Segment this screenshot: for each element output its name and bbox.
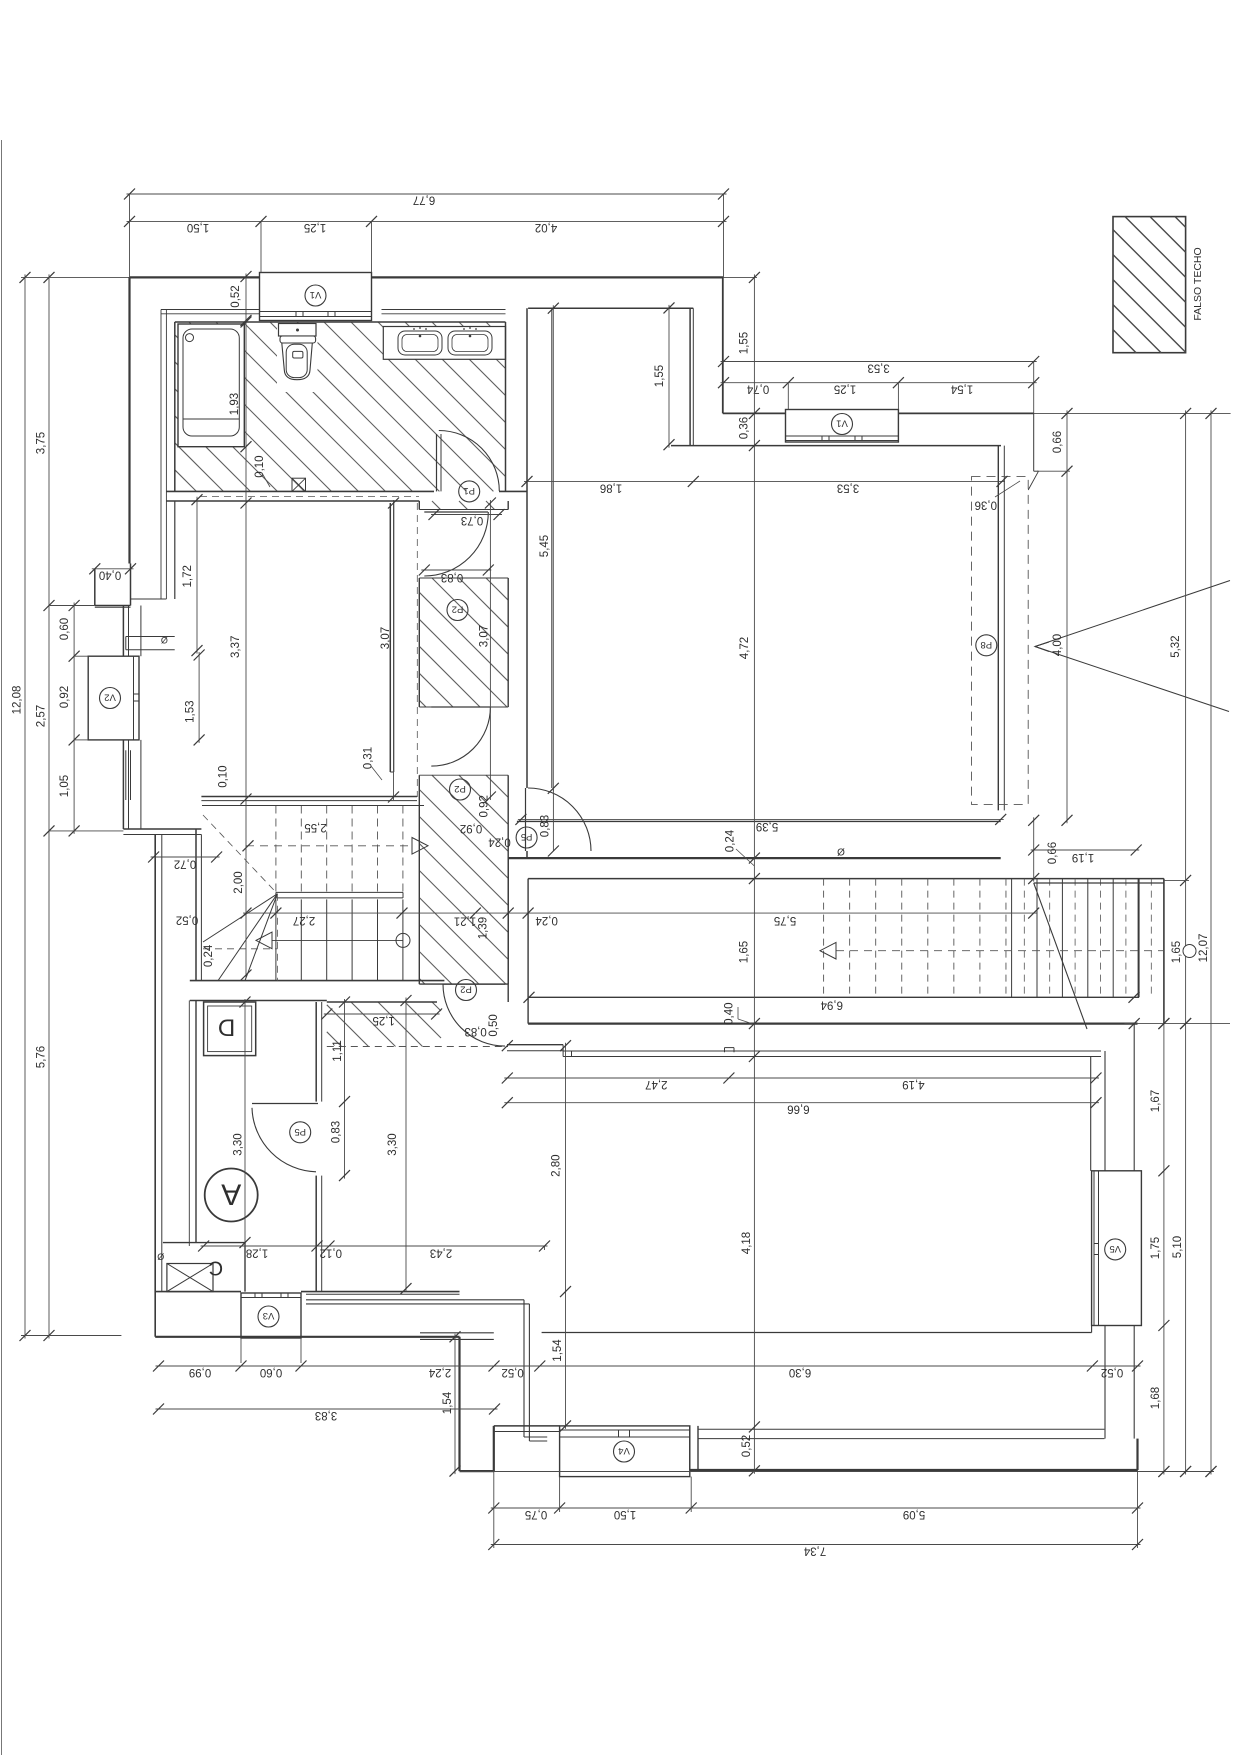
wall: stairwell west side [195,829,197,981]
svg-text:0,83: 0,83 [540,815,552,837]
svg-text:1,50: 1,50 [614,1508,636,1520]
svg-text:1,75: 1,75 [1150,1237,1162,1259]
bottom dim row y1366 [156,1365,1141,1367]
ext line to right edge [1034,412,1231,414]
diagonal break line [1034,883,1087,1029]
wall: NE room east double [997,446,999,811]
wall: bathroom south [166,490,434,492]
window label V1 [305,285,326,306]
stair mid handrail [276,891,403,893]
legend hatch [1113,217,1186,353]
svg-text:4,00: 4,00 [1052,634,1064,656]
svg-text:0,75: 0,75 [525,1508,547,1520]
page border left [1,140,3,1755]
svg-text:1,21: 1,21 [454,914,476,926]
svg-text:2,57: 2,57 [36,705,48,727]
room label A [205,1169,258,1222]
window V1 top [260,273,372,321]
svg-text:V5: V5 [1109,1243,1121,1254]
svg-text:V2: V2 [104,692,116,703]
svg-text:0,24: 0,24 [488,835,511,847]
svg-text:1,65: 1,65 [1171,941,1183,963]
window V2 [88,656,139,740]
left margin dims 12,08 / 3,75 2,57 5,76 / 0,60 0,92 1,05 [24,274,26,1338]
corridor treads east dashed [1023,879,1025,998]
svg-text:3,75: 3,75 [36,432,48,454]
svg-text:2,24: 2,24 [428,1366,451,1378]
dim row 1,28 0,12 2,43 [201,1245,548,1247]
stairs lower flight treads [275,899,277,980]
ext y880 right [1164,879,1189,881]
svg-text:P5: P5 [521,831,533,842]
bottom dim rows 0,75 1,50 5,09 / 7,34 [491,1507,1141,1509]
upper walking line dashed with arrow [246,845,412,847]
corridor dashed treads (west) [823,879,825,998]
wall: bedroom east [389,503,391,772]
svg-text:6,30: 6,30 [789,1366,811,1378]
winder dashed [276,894,278,981]
svg-text:P5: P5 [294,1126,306,1137]
ext lines top [129,194,131,277]
porch south thin lines [698,1428,1104,1430]
svg-text:0,66: 0,66 [1047,842,1059,864]
svg-text:P1: P1 [463,485,475,496]
door P2 lower (hall/stairs) [443,983,505,985]
left vertical dim line x246 (0,52 1,93 3,37 2,00) [245,319,247,978]
svg-text:V4: V4 [618,1445,630,1456]
svg-text:0,92: 0,92 [59,686,71,708]
stair wall hatched band seg2 [419,578,508,707]
svg-text:1,53: 1,53 [185,701,197,723]
wall: west outer lower [154,835,156,1337]
living south thin pair left [420,1332,494,1334]
living room NE corner down [1090,1057,1092,1171]
wall: NE corner vertical [722,277,724,413]
svg-text:6,66: 6,66 [787,1103,809,1115]
svg-text:6,94: 6,94 [820,998,843,1010]
svg-text:1,28: 1,28 [246,1246,268,1258]
window label V3 [258,1306,279,1327]
level marker circle [1183,945,1196,958]
porch SW heavy walls [458,1337,460,1471]
svg-text:3,53: 3,53 [837,481,859,493]
stair east edge [1163,879,1165,1024]
wall: hall/A divider [315,1002,317,1102]
door P5 big room (leaf+arc) [525,788,527,851]
bathroom hatched floor [175,322,506,491]
hatched band lower entry [327,1002,441,1047]
ext lines bottom [493,1471,495,1548]
svg-text:0,10: 0,10 [254,455,266,477]
stair wall hatched band seg1 [432,501,495,510]
long vertical dim line x754 (1,55 0,36 4,72 0,24 1,65 4,18 0,52) [753,274,755,1473]
svg-text:Ø: Ø [161,635,168,645]
wall: vestibule north inner face [528,307,693,309]
svg-text:1,11: 1,11 [332,1040,344,1062]
svg-text:5,76: 5,76 [36,1046,48,1068]
stairs upper flight treads (dashed) [275,806,277,893]
svg-text:4,02: 4,02 [535,221,557,233]
door label P2 mid [450,779,471,800]
dim 1,72 / 1,53 [196,497,198,654]
svg-text:1,25: 1,25 [834,382,856,394]
svg-text:0,83: 0,83 [441,571,463,583]
corridor walking line dashed + arrow [836,950,1163,952]
bathtub white [178,324,244,447]
svg-text:7,34: 7,34 [803,1544,826,1556]
wall: bathroom west inner face [174,322,176,491]
svg-text:V1: V1 [310,289,322,300]
dim 0,66 + 1,19 near stairs [1033,817,1035,881]
svg-text:5,45: 5,45 [539,535,551,557]
svg-text:1,54: 1,54 [442,1391,454,1414]
svg-text:1,39: 1,39 [478,917,490,939]
roof slope lines [1035,581,1230,647]
svg-text:3,30: 3,30 [387,1133,399,1155]
svg-text:0,73: 0,73 [461,514,483,526]
svg-text:0,40: 0,40 [99,568,121,580]
svg-text:0,72: 0,72 [174,857,196,869]
svg-text:P2: P2 [452,604,464,615]
window V5 [1092,1171,1142,1326]
dim 0,52 wall [245,274,247,324]
svg-text:0,52: 0,52 [741,1435,753,1457]
svg-text:0,52: 0,52 [230,285,242,307]
svg-text:0,83: 0,83 [464,1025,486,1037]
svg-text:0,92: 0,92 [478,795,490,817]
wall: corridor west end [507,858,509,1002]
svg-text:0,36: 0,36 [975,498,997,510]
wall: north inner furring lines [161,309,260,311]
svg-text:1,55: 1,55 [654,365,666,387]
V4 right wall stub [689,1426,691,1470]
svg-text:0,24: 0,24 [535,914,558,926]
dim 1,55 vestibule [668,305,670,448]
svg-text:4,72: 4,72 [739,637,751,659]
svg-text:0,36: 0,36 [739,417,751,439]
toilet [279,324,317,337]
svg-text:0,24: 0,24 [203,944,215,967]
svg-text:0,92: 0,92 [460,822,482,834]
window V1 northeast [786,410,899,443]
dim 3,83 [156,1408,498,1410]
door label P5 bigroom [516,827,537,848]
stair top riser line [202,805,424,807]
living east below V5 [1091,1326,1093,1333]
svg-text:3,53: 3,53 [867,361,889,373]
svg-text:A: A [221,1178,241,1211]
svg-text:1,54: 1,54 [552,1339,564,1362]
svg-text:1,25: 1,25 [373,1014,395,1026]
svg-text:5,75: 5,75 [774,914,796,926]
dim 6,94 corridor [524,992,535,1003]
east porch band upper [1133,1024,1135,1171]
window V4 [560,1426,690,1477]
svg-text:0,60: 0,60 [260,1366,282,1378]
dim 5,39 [518,818,1004,820]
svg-text:5,09: 5,09 [903,1508,925,1520]
door P5 room A [252,1103,318,1105]
svg-text:1,50: 1,50 [187,221,209,233]
svg-text:0,31: 0,31 [363,747,375,769]
svg-text:0,52: 0,52 [501,1366,523,1378]
wall: hatch band borders [418,501,420,510]
svg-text:0,60: 0,60 [59,618,71,640]
wall: entry hatch band top/bottom [327,1001,437,1003]
wall: bedroom south [201,796,417,798]
wall: west outer face upper [128,277,130,563]
bathtub drain [186,334,194,342]
window label V4 [614,1441,635,1462]
wall: corridor south [528,996,1139,998]
door label P2 low [456,980,477,1001]
closet D [204,1002,256,1056]
bathtub [178,324,244,447]
small shelf near V2 [126,636,175,638]
dim 6,77 top [127,193,727,195]
svg-text:2,55: 2,55 [304,821,326,833]
wall: big room south outer / corridor north [508,857,1001,859]
dim 3,53 NE [721,361,1037,363]
dim 0,40 bay [92,568,134,570]
dim 1,54 porch x2 [454,1334,456,1474]
svg-text:V1: V1 [836,418,848,429]
living room north wall [507,1044,563,1046]
svg-text:3,07: 3,07 [478,625,490,647]
door P1 bathroom [436,434,438,491]
wall: bathroom east inner face [505,322,507,491]
svg-text:1,65: 1,65 [738,941,750,963]
dim row 0,74 1,25 1,54 [721,382,1037,384]
svg-text:1,72: 1,72 [182,565,194,587]
svg-text:2,27: 2,27 [293,914,315,926]
corridor treads east solid [1011,879,1013,998]
dim 3,07 x2 [393,500,395,800]
svg-text:0,40: 0,40 [724,1003,736,1025]
ext line y1023.6 right [1124,1023,1230,1025]
svg-text:D: D [218,1014,235,1041]
svg-text:5,32: 5,32 [1170,635,1182,657]
NE stub corner 0.36 [1033,413,1035,471]
lower walking line with circle and arrow [272,939,403,941]
svg-text:1,25: 1,25 [304,221,326,233]
svg-text:2,43: 2,43 [430,1246,452,1258]
svg-text:0,24: 0,24 [724,829,736,852]
porch south heavy edge [690,1469,1138,1471]
svg-text:5,10: 5,10 [1172,1236,1184,1258]
wall: A-room west inner lines [188,1001,190,1247]
svg-text:6,77: 6,77 [413,193,435,205]
wall: hall south outer heavy [155,1336,459,1338]
wall: hall south [155,1291,241,1293]
double sink counter [383,327,505,360]
svg-text:1,67: 1,67 [1150,1090,1162,1112]
svg-text:1,86: 1,86 [600,481,622,493]
svg-text:0,50: 0,50 [488,1014,500,1036]
svg-text:P2: P2 [460,984,472,995]
svg-text:0,10: 0,10 [217,765,229,787]
wall: vestibule east / NE room west [689,308,691,445]
svg-text:1,93: 1,93 [229,393,241,415]
stair wall hatched band seg3 [419,775,508,984]
svg-text:0,74: 0,74 [746,382,769,394]
svg-text:3,83: 3,83 [315,1409,337,1421]
door label P8 [976,635,997,656]
svg-text:3,37: 3,37 [230,636,242,658]
living dims 2,47 4,19 6,66 [504,1077,1099,1079]
door label P1 [459,481,480,502]
svg-text:FALSO TECHO: FALSO TECHO [1192,247,1204,320]
svg-text:3,30: 3,30 [232,1133,244,1155]
wall: jog below V2 [123,828,201,830]
window V3 [241,1293,301,1338]
svg-text:1,19: 1,19 [1072,851,1094,863]
svg-text:1,05: 1,05 [59,775,71,797]
dim 12,07 [1210,410,1212,1474]
door label P2 top [447,600,468,621]
door P2 middle (0.92) [431,706,490,708]
stair flight top edge east [1034,882,1164,884]
wall: west bay jog at 0.40 [94,569,96,606]
svg-text:1,68: 1,68 [1150,1387,1162,1409]
door P2 bedroom/hall top [424,511,488,513]
svg-text:4,18: 4,18 [741,1232,753,1254]
svg-text:2,00: 2,00 [233,871,245,893]
svg-text:0,12: 0,12 [320,1246,342,1258]
ext line 2,43 right end [544,1246,546,1250]
dashed line east of bedroom [416,503,418,797]
svg-text:2,80: 2,80 [551,1155,563,1177]
living south inner [542,1332,1092,1334]
svg-text:12,08: 12,08 [12,686,24,715]
dims at hall A rooms [244,999,246,1246]
dim 5,45 [552,305,554,791]
toilet white [277,324,318,392]
dim line x1185.6 (5,32 1,65 5,10) [1185,410,1187,1474]
window label V1 NE [832,414,853,435]
svg-text:0,83: 0,83 [330,1121,342,1143]
wall: north outer face [130,276,260,278]
wall: NE room north face [723,412,786,414]
shower box with X [167,1264,213,1292]
svg-text:P8: P8 [980,639,992,650]
dim row 1,50 1,25 4,02 [127,220,727,222]
thin wall pair to porch (Z) [306,1299,524,1301]
dim 1,25 hatch band low [324,1013,440,1015]
wall: big room west [526,308,528,788]
small bump on living north wall [724,1048,726,1053]
C room [163,1242,245,1244]
svg-text:0,99: 0,99 [189,1366,211,1378]
window label V2 [100,688,121,709]
dim 2,80 / 1,54 merged line [565,1043,567,1429]
svg-text:0,66: 0,66 [1052,431,1064,453]
svg-text:Ø: Ø [837,846,845,857]
wall: stair south [190,980,445,982]
svg-text:C: C [209,1257,223,1279]
svg-text:1,54: 1,54 [950,382,973,394]
svg-text:1,55: 1,55 [739,332,751,354]
door label P5 roomA [290,1122,311,1143]
dim 0,83 door P2 top [421,569,491,571]
dashed P8 opening rect [972,477,1029,805]
svg-text:3,07: 3,07 [380,627,392,649]
winder fan lines [218,894,277,981]
right column 1,67 1,75 1,68 [1163,1021,1165,1475]
wall: west bay sides of V2 [122,606,124,657]
dim 0,66 + 4,00 line x1067 [1066,410,1068,823]
dim 0,72 step [151,856,220,858]
wall: big room south inner [517,820,1001,822]
dim row y913 (2,27 1,21 1,39 0,24 5,75) [243,912,1037,914]
svg-text:12,07: 12,07 [1198,934,1210,963]
legend falso techo [1113,217,1186,353]
dim 0,73 door P1 [431,514,502,516]
wall: bathroom north inner face [175,321,506,323]
floor drain box [292,478,306,491]
dim row 1,86 3,53 inside big room [524,480,1005,482]
window label V5 [1105,1239,1126,1260]
svg-text:5,39: 5,39 [756,820,778,832]
wall: NE room north inner face [671,445,1001,447]
svg-text:Ø: Ø [157,1251,164,1261]
svg-text:V3: V3 [263,1310,275,1321]
svg-text:0,52: 0,52 [1101,1366,1123,1378]
svg-text:4,19: 4,19 [902,1078,924,1090]
svg-text:2,47: 2,47 [645,1078,667,1090]
svg-text:0,52: 0,52 [176,913,198,925]
sink counter white [383,327,505,360]
wall: west inner furring [160,310,162,600]
svg-text:P2: P2 [454,783,466,794]
